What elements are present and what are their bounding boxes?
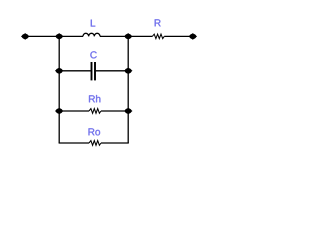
- junction Rh branch right: [124, 108, 133, 115]
- label Rh: [89, 95, 100, 102]
- wire capacitor branch left: [59, 70, 90, 72]
- capacitor C left plate: [91, 62, 93, 80]
- label Ro: [89, 128, 101, 135]
- label C: [90, 51, 96, 58]
- label R: [155, 19, 161, 26]
- wire R to output terminal: [164, 35, 190, 37]
- node input terminal: [21, 33, 30, 40]
- wire Ro branch bottom left: [59, 142, 89, 144]
- wire left rail: [58, 36, 60, 143]
- inductor L coil: [83, 33, 100, 36]
- node output terminal: [189, 33, 198, 40]
- capacitor C right plate: [94, 62, 96, 80]
- node A top-left junction: [55, 33, 64, 40]
- wire Rh branch left: [59, 110, 89, 112]
- wire inductor to node B: [100, 35, 152, 37]
- wire right rail: [127, 36, 129, 143]
- junction C branch left: [55, 68, 64, 75]
- junction C branch right: [124, 68, 133, 75]
- resistor Rh zigzag: [89, 109, 101, 114]
- junction Rh branch left: [55, 108, 64, 115]
- node B top-right junction: [124, 33, 133, 40]
- wire capacitor branch right: [96, 70, 128, 72]
- resistor R zigzag: [152, 34, 164, 39]
- wire Rh branch right: [101, 110, 128, 112]
- wire top-left (input to node A): [25, 35, 83, 37]
- label L: [91, 20, 95, 27]
- wire Ro branch bottom right: [101, 142, 129, 144]
- resistor Ro zigzag: [89, 141, 101, 146]
